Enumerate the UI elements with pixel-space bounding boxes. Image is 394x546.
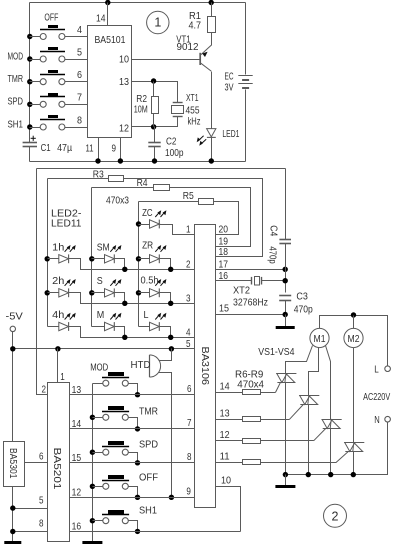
ZC anode wire	[139, 224, 150, 226]
junction pin11 bottom wire	[95, 158, 100, 163]
triac VS3	[314, 420, 342, 441]
svg-text:12: 12	[220, 429, 230, 441]
M2 top lead	[353, 316, 355, 329]
junction rail row OFF	[27, 34, 32, 39]
LED ZR	[150, 245, 167, 263]
junction SH1 pin line	[135, 529, 140, 534]
LED 2h	[59, 279, 76, 297]
pin 1 wire from ZC	[160, 225, 195, 235]
2h anode wire	[48, 292, 59, 294]
TMR drop wire	[129, 418, 138, 429]
junction rail1 1h	[45, 256, 50, 261]
pin 9 wire	[120, 138, 122, 162]
triac common bottom wire to N	[286, 422, 388, 475]
svg-text:3: 3	[186, 292, 191, 304]
junction rail1 2h	[45, 290, 50, 295]
junction OFF pin line	[135, 495, 140, 500]
R3 resistor 470	[109, 176, 124, 182]
pin 4 row wire from 4h	[69, 327, 195, 338]
LED1 diode	[207, 129, 216, 138]
svg-text:TMR: TMR	[8, 73, 24, 85]
junction M2 top	[351, 312, 356, 317]
battery bottom wire	[245, 90, 247, 162]
junction MOD pin line	[135, 392, 140, 397]
svg-text:1h: 1h	[52, 241, 64, 253]
S cathode drop wire	[115, 293, 125, 304]
wire rail to OFF	[93, 486, 103, 488]
ZR cathode drop wire	[160, 259, 171, 270]
junction HTD top	[169, 346, 174, 351]
LED column rail 2	[91, 188, 93, 327]
svg-text:16: 16	[72, 521, 82, 533]
junction pin17 C4	[283, 267, 288, 272]
0.5h anode wire	[139, 292, 150, 294]
junction L row line	[168, 335, 173, 340]
svg-text:2h: 2h	[52, 275, 64, 287]
svg-text:11: 11	[86, 143, 94, 155]
pushbutton switch SPD	[102, 441, 129, 455]
SM anode wire	[92, 258, 105, 260]
svg-text:5: 5	[77, 46, 82, 58]
svg-text:2: 2	[332, 509, 339, 523]
svg-text:15: 15	[219, 302, 229, 314]
junction pin9 bottom wire	[118, 158, 123, 163]
svg-text:SPD: SPD	[8, 96, 24, 108]
svg-text:8: 8	[39, 517, 44, 529]
pin 4 wire	[65, 36, 88, 38]
ZR anode wire	[139, 258, 150, 260]
resistor R1 4.7	[208, 17, 216, 33]
pin 8 wire	[65, 127, 88, 129]
battery branch wire	[245, 3, 247, 75]
R8 to gate wire	[261, 440, 314, 442]
svg-text:470x4: 470x4	[237, 379, 264, 391]
svg-text:5: 5	[39, 495, 44, 507]
junction ZR row line	[168, 267, 173, 272]
svg-text:AC220V: AC220V	[363, 391, 390, 403]
svg-text:17: 17	[219, 259, 229, 271]
pin 11 wire	[98, 138, 100, 162]
junction S row line	[122, 301, 127, 306]
svg-text:BA5301: BA5301	[7, 448, 18, 479]
svg-text:OFF: OFF	[139, 472, 158, 484]
svg-text:S: S	[97, 275, 103, 287]
wire to ground	[285, 315, 287, 328]
svg-text:R5: R5	[183, 190, 194, 202]
svg-text:BA5101: BA5101	[95, 34, 126, 46]
LED column rail 3	[138, 202, 140, 327]
junction XT2 node	[283, 278, 288, 283]
LED column rail 1	[47, 179, 49, 327]
svg-text:0.5h: 0.5h	[141, 275, 159, 287]
BA5301 bottom wire to ground	[12, 487, 14, 542]
resistor R8 470	[243, 439, 261, 444]
crystal XT1 455kHz	[172, 103, 184, 117]
R6 to gate wire	[261, 392, 276, 394]
pin 13 wire	[216, 419, 243, 421]
SM cathode drop wire	[115, 259, 125, 270]
wire rail to switch SH1	[30, 127, 41, 129]
svg-text:N: N	[374, 414, 380, 426]
VS2 bottom wire	[308, 405, 310, 475]
svg-text:10: 10	[221, 474, 231, 486]
circuit 2 outer -5V loop top wire	[37, 168, 286, 170]
wire rail to TMR	[93, 417, 103, 419]
svg-text:8: 8	[187, 451, 192, 463]
svg-text:470p: 470p	[266, 246, 278, 263]
LED S	[105, 279, 122, 297]
wire C4 to C3	[285, 244, 287, 293]
M1 M2 top wire to L terminal	[320, 316, 388, 367]
HTD bottom lead to pin 9 line	[159, 373, 172, 498]
resistor R6 470	[243, 390, 261, 395]
junction rail TMR	[90, 415, 95, 420]
junction SM row line	[122, 267, 127, 272]
pushbutton switch MOD	[102, 372, 129, 386]
junction SPD pin line	[135, 460, 140, 465]
svg-text:4: 4	[186, 326, 191, 338]
junction rail2 S	[89, 290, 94, 295]
svg-text:10: 10	[119, 54, 129, 66]
VS4 bottom wire	[353, 452, 355, 475]
svg-text:4.7: 4.7	[189, 19, 202, 31]
svg-text:-5V: -5V	[6, 311, 23, 323]
pushbutton switch OFF	[40, 25, 65, 40]
pin 5 wire	[13, 508, 48, 510]
svg-text:SH1: SH1	[8, 118, 24, 130]
triac VS4	[336, 443, 364, 463]
pushbutton switch SH1	[40, 115, 65, 130]
ground near C3	[276, 326, 295, 329]
svg-text:VS1-VS4: VS1-VS4	[258, 346, 294, 358]
junction M row line	[122, 335, 127, 340]
svg-text:14: 14	[220, 380, 230, 392]
motor M1	[310, 328, 329, 347]
SPD drop wire	[129, 453, 138, 463]
circuit 1 top supply wire	[30, 2, 246, 4]
HTD top lead	[159, 349, 172, 361]
wire rail to switch OFF	[30, 36, 41, 38]
pin 5 supply wire	[13, 348, 195, 350]
svg-text:SM: SM	[97, 241, 110, 253]
pin 15 line	[70, 462, 195, 464]
svg-text:13: 13	[119, 76, 129, 88]
svg-text:SH1: SH1	[139, 505, 157, 517]
R1 top lead	[211, 3, 213, 17]
svg-text:14: 14	[72, 418, 82, 430]
svg-text:9012: 9012	[177, 41, 199, 53]
svg-text:6: 6	[39, 450, 44, 462]
pin 12 wire	[216, 440, 243, 442]
junction triac bottom x=308.3	[306, 472, 311, 477]
wire rail to switch MOD	[30, 59, 41, 61]
LED1 cathode wire	[211, 138, 213, 162]
svg-text:XT1: XT1	[186, 92, 199, 104]
junction triac bottom x=353.3	[351, 472, 356, 477]
ground below BA5301	[4, 541, 21, 544]
BA5201 pin 1 riser	[57, 349, 59, 383]
ground below switch rail	[82, 541, 102, 544]
svg-text:20: 20	[219, 224, 229, 236]
svg-text:OFF: OFF	[44, 11, 58, 23]
pin 3 row wire from 2h	[69, 293, 195, 304]
svg-text:7: 7	[77, 92, 82, 104]
VS1 bottom wire	[285, 383, 287, 475]
pin 15 wire	[216, 314, 286, 316]
junction triac bottom x=285.4	[283, 472, 288, 477]
pin 10 wire to VT1 base	[132, 59, 201, 61]
outer loop right edge to C4	[285, 169, 287, 240]
junction rail3 ZC anode	[136, 221, 141, 226]
M cathode drop wire	[115, 327, 125, 338]
junction BA5201 pin1 riser	[55, 346, 60, 351]
terminal -5V	[10, 326, 15, 331]
crystal XT2 32768Hz	[216, 280, 252, 282]
L cathode drop wire	[160, 327, 171, 338]
pin 12 wire to R2/XT1	[132, 117, 178, 127]
R9 to gate wire	[261, 462, 337, 464]
C3 bottom wire	[285, 301, 287, 315]
IC U1 BA5101	[88, 26, 132, 138]
junction pin12 R2 C2	[151, 124, 156, 129]
circuit 1 left rail	[29, 3, 31, 143]
svg-text:BA5201: BA5201	[51, 448, 63, 490]
S anode wire	[92, 292, 105, 294]
MOD drop wire	[129, 384, 138, 395]
LED SM	[105, 245, 122, 263]
svg-text:1: 1	[154, 16, 161, 30]
1h anode wire	[48, 258, 59, 260]
triac VS2	[290, 396, 320, 420]
pin 5 wire	[65, 59, 88, 61]
svg-text:R4: R4	[137, 177, 148, 189]
R5 wire to pin 20	[214, 202, 239, 235]
-5V wire down to BA5301	[12, 332, 14, 442]
svg-text:C1: C1	[41, 142, 51, 154]
svg-text:M2: M2	[348, 333, 360, 345]
motor M2	[344, 328, 363, 347]
LED 0.5h	[150, 279, 167, 297]
pin 13 wire to R2/XT1	[132, 82, 178, 103]
R2 bottom lead	[153, 114, 155, 127]
LED 4h	[59, 313, 76, 331]
M1 right lead to VS3	[326, 346, 331, 420]
circled number 1	[147, 11, 169, 33]
C1 plus sign	[31, 136, 36, 141]
C2 bottom lead	[154, 147, 156, 162]
R3 net: rail1 down / right to pin 18 riser	[48, 178, 109, 180]
pin 14 wire	[107, 3, 109, 26]
wire rail to SH1	[93, 520, 103, 522]
junction pin8	[10, 529, 15, 534]
junction LED1 bottom wire	[209, 158, 214, 163]
capacitor C1 47u	[23, 143, 37, 147]
C3 capacitor 470p	[279, 296, 291, 301]
pushbutton switch SPD	[40, 93, 65, 107]
svg-text:18: 18	[219, 246, 229, 258]
wire to ground	[285, 475, 287, 486]
svg-text:14: 14	[96, 13, 106, 25]
battery EC 3V	[238, 76, 252, 89]
ground below triacs	[275, 485, 295, 488]
junction rail row SPD	[27, 102, 32, 107]
svg-text:M1: M1	[314, 333, 326, 345]
M1 middle lead to VS2	[309, 348, 319, 396]
pushbutton switch TMR	[40, 70, 65, 85]
wire rail to MOD	[93, 383, 103, 385]
LED1 emission arrows	[198, 136, 204, 141]
svg-text:ZC: ZC	[142, 207, 153, 219]
R2 top lead	[153, 82, 155, 97]
svg-text:C2: C2	[166, 135, 177, 147]
R4 wire to pin 19	[170, 188, 251, 247]
pin 6 wire	[65, 81, 88, 83]
svg-text:15: 15	[72, 452, 82, 464]
VS3 bottom wire	[330, 429, 332, 475]
svg-text:SPD: SPD	[139, 439, 158, 451]
svg-text:4h: 4h	[52, 309, 64, 321]
junction rail3 0.5h	[136, 290, 141, 295]
pin 14 wire	[216, 392, 243, 394]
wire rail to switch TMR	[30, 81, 41, 83]
pushbutton switch OFF	[102, 475, 129, 489]
svg-text:HTD: HTD	[131, 359, 151, 371]
svg-text:R3: R3	[93, 168, 104, 180]
LED L	[150, 313, 167, 331]
svg-text:M: M	[97, 309, 105, 321]
junction triac bottom x=330.7	[328, 472, 333, 477]
svg-text:455: 455	[186, 104, 200, 116]
IC U3 BA5201	[48, 383, 70, 542]
svg-text:L: L	[374, 363, 379, 375]
pushbutton switch MOD	[40, 47, 65, 62]
SH1 drop wire	[129, 521, 138, 532]
svg-text:11: 11	[220, 450, 230, 462]
transistor VT1 9012	[200, 45, 211, 71]
outer loop left rail to BA5201 pin 2	[37, 169, 48, 395]
junction pin5	[10, 505, 15, 510]
R5 net: rail3 down / right to pin 20 riser	[139, 201, 199, 203]
svg-text:12: 12	[72, 487, 82, 499]
pin 2 row wire from 1h	[69, 259, 195, 270]
svg-text:4: 4	[77, 24, 82, 36]
buzzer HTD	[150, 355, 161, 377]
R7 to gate wire	[261, 419, 290, 421]
junction R1 top wire	[209, 0, 214, 5]
svg-text:LED11: LED11	[51, 217, 82, 229]
pin 11 wire	[216, 462, 243, 464]
junction 0.5h row line	[168, 301, 173, 306]
collector wire to LED1	[211, 72, 213, 129]
svg-text:kHz: kHz	[188, 116, 201, 128]
capacitor C2 100p	[148, 143, 160, 147]
junction rail row MOD	[27, 56, 32, 61]
LED ZC	[150, 210, 167, 228]
LED 1h	[59, 245, 76, 263]
R4 resistor 470	[154, 185, 170, 191]
svg-text:1: 1	[60, 371, 65, 383]
resistor R2 10M	[152, 97, 159, 114]
R3 wire to pin 18	[124, 179, 263, 257]
junction pin14 top wire	[105, 0, 110, 5]
R5 resistor 470	[199, 199, 214, 205]
svg-text:100p: 100p	[165, 147, 184, 159]
svg-text:1: 1	[186, 223, 191, 235]
junction C2 bottom wire	[152, 158, 157, 163]
svg-text:7: 7	[187, 417, 192, 429]
svg-text:MOD: MOD	[90, 362, 108, 374]
svg-text:8: 8	[77, 114, 82, 126]
junction HTD pin9 line	[169, 495, 174, 500]
C4 capacitor 470p	[279, 240, 291, 244]
pin 7 wire	[65, 104, 88, 106]
wire rail to switch SPD	[30, 104, 41, 106]
junction TMR pin line	[135, 426, 140, 431]
svg-text:470p: 470p	[294, 304, 313, 316]
pushbutton switch TMR	[102, 406, 129, 420]
M2 lead to VS4	[353, 348, 355, 443]
junction rail SPD	[90, 450, 95, 455]
M1 left lead to VS1	[286, 346, 313, 374]
svg-text:3V: 3V	[225, 82, 234, 94]
circled number 2	[324, 504, 347, 527]
svg-text:13: 13	[72, 384, 82, 396]
junction rail row SH1	[27, 124, 32, 129]
R1 bottom lead	[211, 33, 213, 46]
svg-text:MOD: MOD	[8, 50, 24, 62]
svg-text:BA3106: BA3106	[199, 347, 211, 386]
svg-text:9: 9	[186, 486, 191, 498]
junction rail3 ZR	[136, 256, 141, 261]
resistor R7 470	[243, 417, 261, 422]
svg-text:9: 9	[112, 143, 117, 155]
svg-text:C4: C4	[267, 225, 279, 236]
pin 12 line	[70, 497, 195, 499]
switch rail circuit 2	[92, 384, 94, 542]
svg-text:13: 13	[220, 407, 230, 419]
svg-text:6: 6	[77, 69, 82, 81]
terminal N	[385, 416, 391, 422]
junction rail OFF	[90, 484, 95, 489]
wire rail to SPD	[93, 452, 103, 454]
pushbutton switch SH1	[102, 510, 129, 524]
svg-text:6: 6	[187, 383, 192, 395]
L anode wire	[139, 326, 150, 328]
svg-text:12: 12	[119, 122, 129, 134]
pin 17 wire to C4 node	[216, 269, 286, 271]
R4 net: rail2 down / right to pin 19 riser	[92, 187, 154, 189]
svg-text:32768Hz: 32768Hz	[233, 297, 268, 309]
junction rail2 SM	[89, 256, 94, 261]
junction rail row TMR	[27, 79, 32, 84]
junction pin13 R2	[151, 78, 156, 83]
resistor R9 470	[243, 460, 261, 465]
pin 13 line	[70, 394, 195, 396]
pin 16 line	[70, 531, 241, 533]
pin 10 wire loop	[216, 487, 241, 532]
pin 8 wire	[13, 531, 48, 533]
svg-text:470x3: 470x3	[106, 195, 129, 207]
LED M	[105, 313, 122, 331]
BA5301 pin 6 wire	[25, 462, 48, 464]
svg-text:2: 2	[42, 384, 47, 396]
junction rail SH1	[90, 518, 95, 523]
svg-text:XT2: XT2	[233, 285, 250, 297]
svg-text:10M: 10M	[134, 104, 148, 116]
pin 14 line	[70, 428, 195, 430]
XT2 right wire	[262, 280, 286, 282]
C2 top lead	[154, 127, 156, 143]
